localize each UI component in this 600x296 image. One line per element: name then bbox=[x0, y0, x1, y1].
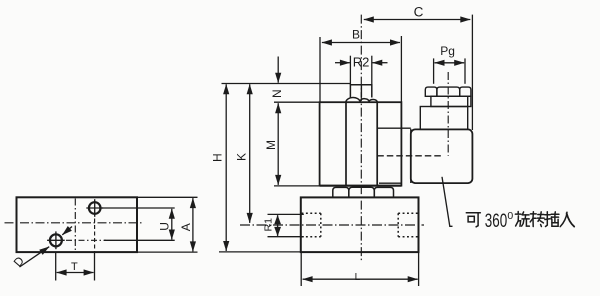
leader to note bbox=[442, 177, 453, 227]
armature tube left side bbox=[345, 102, 347, 186]
horizontal centerline of left view bbox=[5, 222, 144, 224]
dimension N upper arrow bbox=[277, 57, 279, 83]
cable gland nut lobe left bbox=[425, 87, 437, 96]
coil bottom heavy line bbox=[320, 185, 402, 187]
hex nut lobe left bbox=[333, 187, 349, 197]
armature tube dome arcs bbox=[346, 98, 377, 103]
svg-text:T: T bbox=[71, 261, 78, 273]
gland middle block bbox=[431, 96, 471, 106]
coil bottom extension line bbox=[274, 185, 320, 187]
connector centerline bbox=[447, 72, 449, 156]
dimension T bbox=[57, 272, 94, 274]
solenoid coil body bbox=[320, 102, 402, 185]
B right extension line bbox=[400, 36, 402, 102]
dimension A bbox=[192, 198, 194, 251]
svg-text:0: 0 bbox=[507, 210, 513, 222]
L right extension line bbox=[418, 252, 420, 286]
cable gland nut lobe middle bbox=[437, 87, 460, 96]
glyph 旋 bbox=[515, 212, 529, 227]
glyph 插 bbox=[545, 212, 559, 227]
dimension U lower extension bbox=[104, 239, 175, 241]
cable gland nut lobe right bbox=[460, 87, 471, 96]
left port dotted top bbox=[302, 212, 321, 214]
connector spigot right side bbox=[410, 129, 412, 183]
lower hole centerline bbox=[66, 239, 106, 241]
gland middle block inner line bbox=[467, 96, 469, 106]
stem facet division bbox=[360, 85, 362, 98]
svg-text:U: U bbox=[158, 222, 172, 231]
dimension C bbox=[364, 19, 471, 21]
svg-text:B: B bbox=[352, 28, 360, 42]
svg-text:K: K bbox=[235, 153, 249, 161]
hex nut lobe middle bbox=[349, 187, 375, 197]
bottom reference extension line bbox=[219, 251, 301, 253]
armature tube right side bbox=[376, 102, 378, 186]
right port dotted bottom bbox=[398, 236, 417, 238]
hex nut lobe right bbox=[374, 187, 393, 197]
dimension T left extension bbox=[55, 252, 57, 280]
dimension U bbox=[171, 209, 173, 240]
left view body outline bbox=[17, 197, 138, 252]
svg-text:C: C bbox=[414, 5, 424, 20]
manual override stem bbox=[350, 85, 371, 98]
Pg right extension line bbox=[464, 58, 466, 83]
A top extension line bbox=[137, 196, 198, 198]
R1 upper extension stub bbox=[268, 213, 304, 215]
svg-text:A: A bbox=[179, 223, 193, 231]
vertical centerline of valve bbox=[360, 15, 362, 261]
right port dotted side bbox=[397, 213, 399, 236]
dimension H bbox=[225, 84, 227, 251]
valve body bbox=[301, 197, 419, 252]
right port dotted top bbox=[398, 212, 417, 214]
R2 left extension line bbox=[349, 56, 351, 85]
dimension M bbox=[277, 103, 279, 185]
gland lower block bbox=[420, 107, 467, 130]
R2 right arrow bbox=[372, 62, 387, 64]
coil bottom-right inner line bbox=[379, 182, 401, 184]
upper mounting hole bbox=[86, 199, 103, 217]
C right extension line bbox=[471, 15, 473, 130]
dimension K bbox=[249, 84, 251, 223]
svg-text:Pg: Pg bbox=[440, 44, 455, 58]
glyph 可 bbox=[466, 213, 480, 227]
svg-text:R2: R2 bbox=[353, 54, 370, 69]
svg-text:N: N bbox=[270, 89, 284, 98]
lower mounting hole bbox=[47, 231, 65, 249]
leader D arrow lower bbox=[20, 247, 50, 267]
connector body bbox=[411, 129, 473, 183]
svg-text:L: L bbox=[355, 272, 361, 283]
R2 right extension line bbox=[371, 56, 373, 85]
dimension T right extension bbox=[94, 252, 96, 280]
glyph 转 bbox=[530, 212, 544, 227]
dimension R1 bbox=[277, 215, 279, 236]
hidden line below upper hole bbox=[94, 219, 96, 253]
R2 left arrow bbox=[335, 62, 350, 64]
svg-text:H: H bbox=[211, 153, 225, 162]
svg-text:360: 360 bbox=[485, 210, 507, 232]
Pg left extension line bbox=[433, 58, 435, 83]
main port centerline bbox=[240, 224, 424, 226]
dimension Pg bbox=[435, 62, 465, 64]
coil top extension line bbox=[274, 101, 320, 103]
leader D arrow upper bbox=[62, 227, 72, 235]
dimension U upper extension bbox=[101, 207, 175, 209]
B left extension line bbox=[319, 37, 321, 102]
A bottom extension line bbox=[137, 251, 198, 253]
R1 upper arrowhead bbox=[274, 215, 281, 224]
dimension B bbox=[322, 42, 400, 44]
left port dotted bottom bbox=[302, 236, 321, 238]
svg-text:M: M bbox=[264, 140, 278, 150]
hidden plug line bbox=[377, 155, 441, 157]
L left extension line bbox=[300, 252, 302, 286]
R1 lower extension stub bbox=[268, 236, 304, 238]
vertical centerline of left view bbox=[74, 199, 76, 252]
glyph 入 bbox=[560, 212, 574, 226]
left port dotted side bbox=[320, 213, 322, 236]
top reference extension line bbox=[222, 83, 351, 85]
R1 lower arrowhead bbox=[274, 227, 281, 236]
dimension L bbox=[303, 278, 418, 280]
connector spigot top line bbox=[377, 127, 411, 129]
